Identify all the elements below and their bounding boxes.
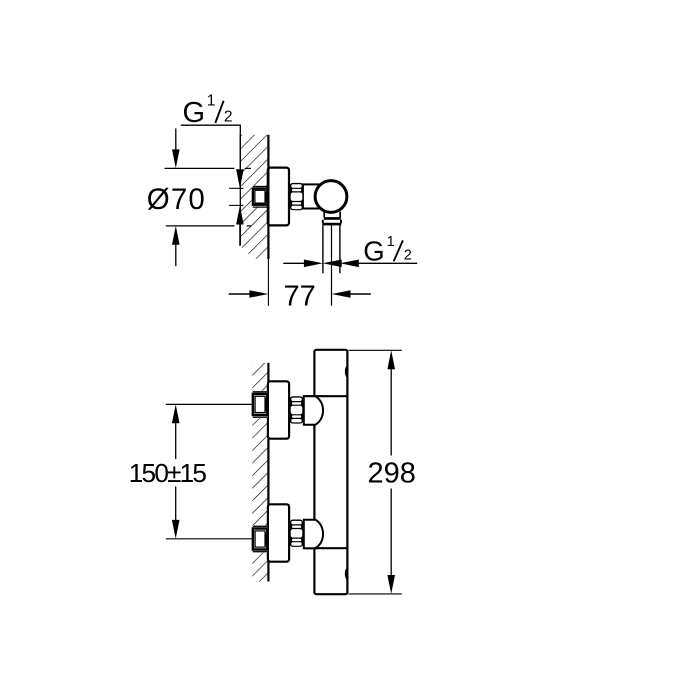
- svg-text:1: 1: [207, 93, 216, 110]
- svg-text:2: 2: [224, 109, 233, 126]
- svg-text:1: 1: [387, 234, 395, 250]
- svg-text:298: 298: [368, 457, 416, 489]
- svg-text:G: G: [183, 97, 206, 129]
- svg-text:150±15: 150±15: [129, 458, 207, 488]
- svg-text:2: 2: [404, 247, 412, 263]
- svg-text:Ø70: Ø70: [147, 183, 206, 216]
- svg-text:77: 77: [284, 280, 316, 312]
- svg-text:G: G: [363, 236, 384, 267]
